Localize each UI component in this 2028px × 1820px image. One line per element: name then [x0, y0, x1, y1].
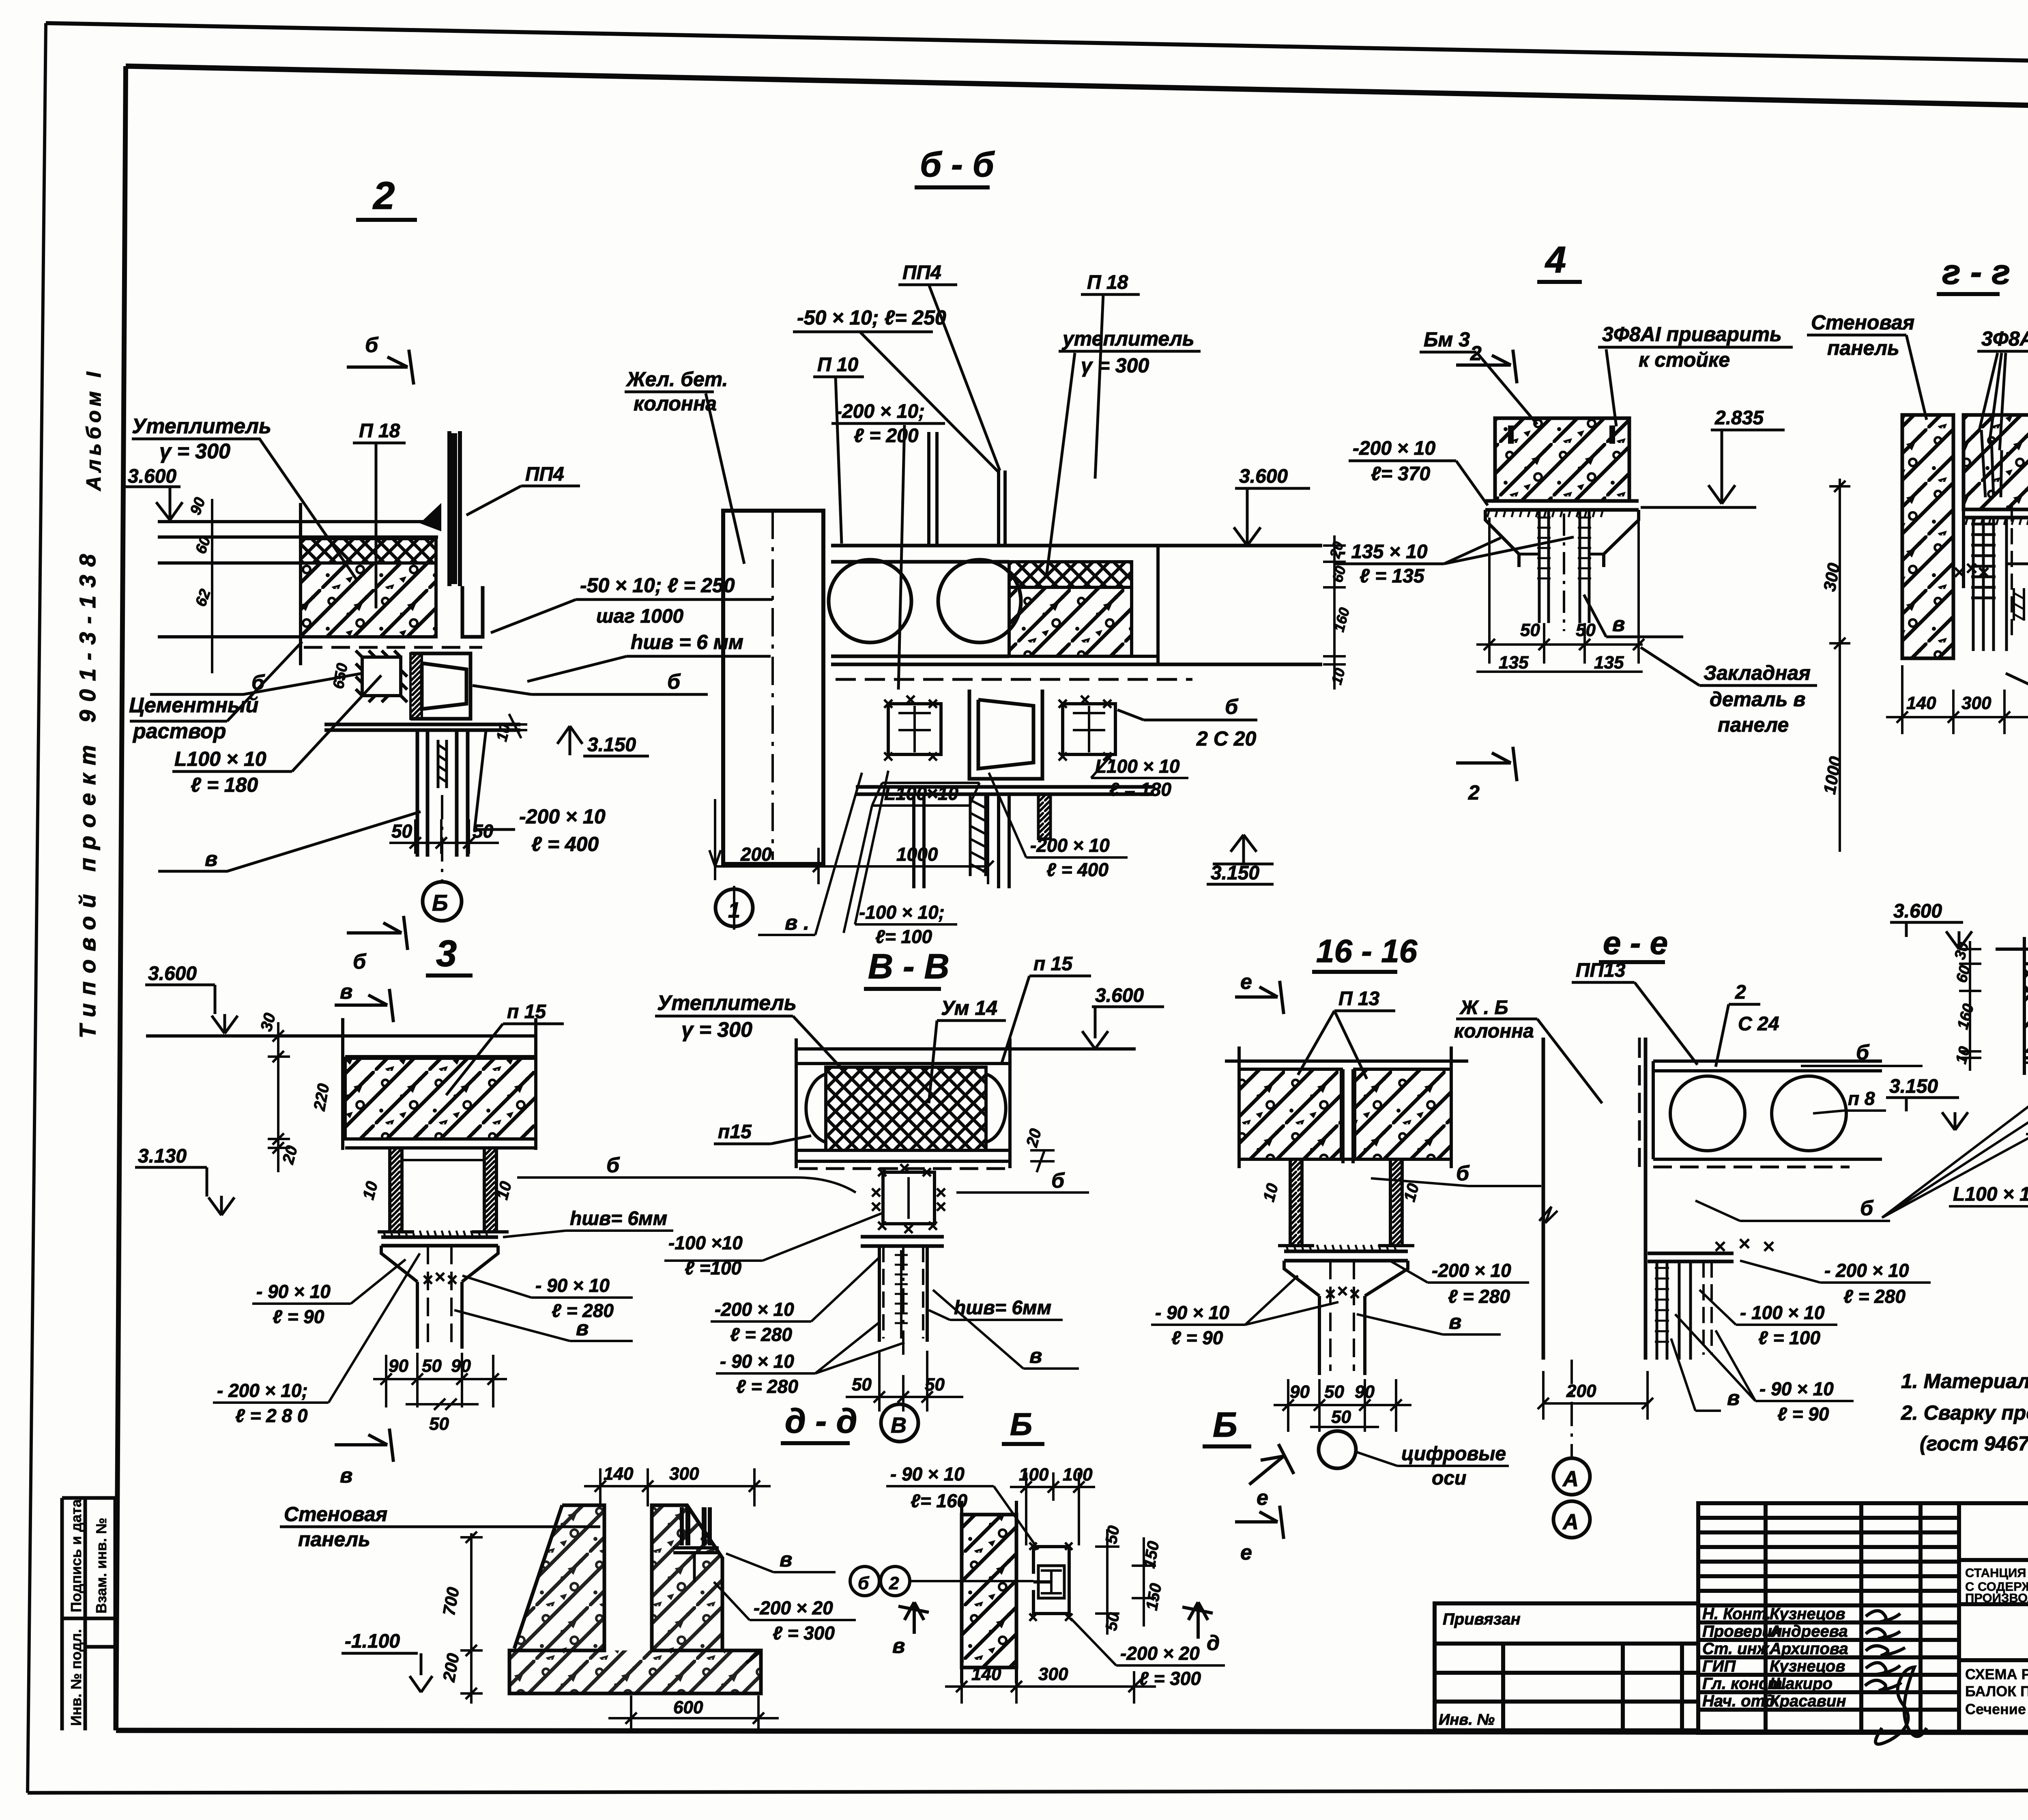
svg-text:П 18: П 18 [359, 420, 400, 442]
svg-text:Б: Б [432, 890, 448, 915]
insulation + concrete right part [1009, 562, 1132, 587]
svg-text:90: 90 [389, 1356, 408, 1376]
svg-text:- 100 × 10: - 100 × 10 [1740, 1302, 1825, 1323]
bracket below: hatched posts + slope [1971, 518, 2028, 651]
svg-text:-200 × 20: -200 × 20 [1120, 1643, 1200, 1664]
bracket wing [420, 503, 441, 531]
left dim chain [1959, 941, 1981, 1071]
svg-text:ℓ = 300: ℓ = 300 [773, 1622, 835, 1644]
vertical plates through slab [929, 432, 1005, 546]
svg-text:Привязан: Привязан [1443, 1610, 1521, 1628]
section marker б (top) [347, 350, 414, 385]
svg-text:-100 × 10;: -100 × 10; [859, 902, 945, 923]
base plate [324, 724, 520, 730]
svg-text:п 15: п 15 [507, 1001, 546, 1023]
svg-text:Архипова: Архипова [1769, 1640, 1848, 1658]
svg-text:ℓ = 280: ℓ = 280 [736, 1376, 798, 1397]
svg-text:б: б [1860, 1197, 1874, 1220]
svg-text:оси: оси [1432, 1468, 1466, 1489]
channel section [378, 1148, 509, 1232]
svg-text:цифровые: цифровые [1401, 1443, 1506, 1465]
section marker в (bottom) [335, 1429, 393, 1462]
svg-text:- 200 × 10;: - 200 × 10; [217, 1380, 308, 1401]
svg-text:в .: в . [785, 911, 809, 935]
svg-text:колонна: колонна [1454, 1021, 1534, 1042]
svg-text:L100 × 10: L100 × 10 [174, 748, 266, 770]
svg-text:в: в [340, 980, 352, 1003]
dimension ticks on left chain 90/60/62 [203, 499, 221, 673]
svg-text:к стойке: к стойке [1639, 348, 1730, 371]
svg-text:п 15: п 15 [1033, 953, 1073, 975]
svg-text:Стеновая: Стеновая [1811, 311, 1914, 334]
svg-text:е: е [1257, 1486, 1268, 1510]
svg-text:ℓ = 180: ℓ = 180 [191, 774, 258, 796]
svg-text:ПРОИЗВОДИТЕЛЬНОСТЬЮ 40 ТЫС. М: ПРОИЗВОДИТЕЛЬНОСТЬЮ 40 ТЫС. М3/СУТКИ. [1965, 1591, 2028, 1605]
svg-text:-200 × 10: -200 × 10 [1353, 438, 1435, 459]
svg-text:3.600: 3.600 [1095, 985, 1144, 1006]
svg-text:в: в [340, 1464, 352, 1487]
left dim chain 30/220/20 [268, 1022, 290, 1172]
svg-text:Кузнецов: Кузнецов [1770, 1605, 1845, 1623]
svg-text:Н. Конт.: Н. Конт. [1702, 1605, 1771, 1623]
svg-text:-50 × 10; ℓ = 250: -50 × 10; ℓ = 250 [580, 574, 735, 597]
svg-text:300: 300 [669, 1464, 699, 1484]
svg-text:4: 4 [1545, 239, 1566, 281]
svg-text:50: 50 [422, 1356, 442, 1376]
channel [1278, 1159, 1414, 1246]
svg-text:панель: панель [1827, 337, 1899, 359]
svg-text:б: б [858, 1573, 870, 1593]
base plate [861, 1237, 944, 1246]
bottom slab line [345, 1146, 536, 1150]
plate + posts [1648, 1253, 1734, 1261]
svg-text:ℓ = 90: ℓ = 90 [1171, 1327, 1223, 1348]
svg-text:Утеплитель: Утеплитель [657, 991, 797, 1015]
svg-text:панель: панель [298, 1528, 370, 1551]
channel section [410, 653, 470, 719]
hollow-core slab [829, 546, 1322, 664]
svg-text:300: 300 [1038, 1664, 1068, 1684]
svg-text:ℓ = 90: ℓ = 90 [273, 1306, 324, 1327]
wall panel (left) [1902, 415, 1953, 658]
svg-text:100: 100 [1063, 1465, 1093, 1485]
axis circle В [881, 1404, 918, 1442]
svg-text:п 8: п 8 [1848, 1088, 1875, 1109]
embedded bars in block [1508, 425, 1514, 444]
svg-text:СТАНЦИЯ ОБЕЗЖЕЛЕЗИВАНИЯ ВО: СТАНЦИЯ ОБЕЗЖЕЛЕЗИВАНИЯ ВОДЫ ПОДЗЕМНЫХ И… [1965, 1566, 2028, 1580]
svg-text:б: б [667, 670, 681, 694]
svg-text:Закладная: Закладная [1704, 662, 1811, 684]
svg-text:-200 × 10;: -200 × 10; [836, 401, 925, 422]
svg-text:3.150: 3.150 [1211, 862, 1259, 884]
svg-text:200: 200 [740, 844, 772, 865]
bracket + post [1284, 1261, 1408, 1375]
svg-text:в: в [1029, 1344, 1042, 1368]
svg-text:ℓ = 400: ℓ = 400 [531, 833, 599, 855]
axis circle Б [423, 882, 462, 921]
svg-text:1000: 1000 [896, 844, 938, 865]
svg-text:Стеновая: Стеновая [284, 1503, 387, 1526]
insulation block [826, 1067, 986, 1150]
svg-text:2: 2 [889, 1573, 899, 1593]
marker д (up arrow) [1182, 1602, 1213, 1639]
svg-text:В: В [891, 1413, 907, 1438]
svg-text:2. Сварку производить электр: 2. Сварку производить электродами типа Э… [1901, 1401, 2028, 1424]
svg-text:в: в [892, 1634, 905, 1658]
svg-text:деталь в: деталь в [1710, 688, 1805, 711]
weld ticks under plate [1487, 510, 1603, 517]
svg-text:б: б [365, 333, 379, 357]
svg-text:- 90 × 10: - 90 × 10 [256, 1281, 331, 1302]
svg-text:50: 50 [429, 1414, 449, 1434]
svg-text:б: б [1051, 1169, 1065, 1193]
svg-text:-200 × 10: -200 × 10 [715, 1299, 794, 1320]
svg-text:ℓ = 300: ℓ = 300 [1139, 1668, 1201, 1689]
svg-text:е - е: е - е [1603, 925, 1668, 961]
column stub in socket [673, 1507, 719, 1582]
signature table grid [1698, 1503, 2028, 1733]
svg-text:панеле: панеле [1718, 713, 1789, 736]
right rotated dims 50 150 150 50 [1095, 1529, 1156, 1635]
svg-text:б: б [1225, 695, 1239, 719]
svg-text:50: 50 [852, 1375, 872, 1395]
base plate [381, 1237, 498, 1246]
svg-text:γ = 300: γ = 300 [1081, 354, 1149, 377]
svg-text:П 18: П 18 [1087, 272, 1128, 293]
svg-text:(гост 9467-75) hшв = 6 мм .: (гост 9467-75) hшв = 6 мм . [1920, 1432, 2028, 1455]
svg-text:γ = 300: γ = 300 [159, 440, 230, 463]
svg-text:утеплитель: утеплитель [1061, 327, 1194, 350]
station description [1965, 1566, 2028, 1605]
svg-text:-50 × 10; ℓ= 250: -50 × 10; ℓ= 250 [797, 306, 946, 329]
hollow core slab right [1653, 1061, 1882, 1167]
anchor posts below [417, 730, 468, 857]
beam block (right) [1964, 415, 2028, 509]
svg-text:Сечение 16-16. Узлы 2 ÷ 5.: Сечение 16-16. Узлы 2 ÷ 5. [1965, 1701, 2028, 1717]
svg-text:3.150: 3.150 [587, 734, 636, 756]
steel assembly [1029, 1543, 1072, 1621]
embedded plate square with weld ticks [356, 651, 407, 702]
svg-text:Инв. №: Инв. № [1439, 1711, 1495, 1728]
svg-text:ГИП: ГИП [1702, 1657, 1736, 1675]
svg-text:2: 2 [372, 174, 395, 217]
svg-text:2: 2 [1468, 781, 1480, 804]
svg-text:ℓ = 280: ℓ = 280 [1843, 1286, 1906, 1307]
svg-text:е: е [1240, 1541, 1252, 1564]
svg-text:-1.100: -1.100 [345, 1631, 400, 1652]
svg-text:hшв = 6 мм: hшв = 6 мм [631, 631, 743, 653]
circles б 2 [850, 1566, 879, 1596]
svg-text:ℓ = 135: ℓ = 135 [1360, 565, 1425, 587]
svg-text:ПП13: ПП13 [1576, 960, 1626, 981]
svg-text:Цементный: Цементный [129, 694, 258, 717]
svg-text:Утеплитель: Утеплитель [132, 415, 271, 438]
base plate [1485, 501, 1639, 510]
svg-text:в: в [576, 1317, 589, 1340]
svg-text:б: б [606, 1154, 620, 1177]
dashed line under slab [799, 1167, 1006, 1170]
base plate [1284, 1251, 1408, 1261]
svg-text:3.600: 3.600 [1893, 900, 1942, 922]
svg-text:ℓ = 180: ℓ = 180 [1109, 779, 1171, 800]
svg-text:в: в [1449, 1310, 1461, 1334]
svg-text:Б: Б [1010, 1406, 1032, 1442]
axis circles А А [1553, 1458, 1590, 1495]
svg-text:50: 50 [1520, 620, 1540, 640]
svg-text:140: 140 [604, 1464, 634, 1484]
svg-text:- 90 × 10: - 90 × 10 [1155, 1302, 1229, 1323]
svg-text:3Ф8АI приварить: 3Ф8АI приварить [1602, 323, 1782, 346]
concrete slab [345, 1058, 536, 1139]
svg-text:2: 2 [1470, 342, 1482, 365]
svg-text:Бм 3: Бм 3 [1424, 328, 1470, 351]
column verticals [1539, 1038, 1646, 1360]
svg-text:г - г: г - г [1942, 253, 2010, 292]
svg-text:hшв= 6мм: hшв= 6мм [954, 1297, 1051, 1319]
svg-text:в: в [1727, 1386, 1740, 1410]
rebar spikes in beam [1981, 430, 2002, 497]
svg-text:hшв= 6мм: hшв= 6мм [570, 1208, 667, 1229]
x welds near wall [1955, 564, 1988, 577]
svg-text:ℓ = 400: ℓ = 400 [1046, 859, 1109, 880]
concrete panel layer [301, 563, 436, 637]
svg-text:3.600: 3.600 [148, 963, 197, 984]
left vertical edge of slab [299, 503, 302, 665]
svg-text:50: 50 [473, 821, 494, 842]
svg-text:L100 × 10: L100 × 10 [1953, 1184, 2028, 1205]
svg-text:А: А [1562, 1510, 1579, 1534]
svg-text:- 90 × 10: - 90 × 10 [535, 1275, 610, 1296]
svg-text:д - д: д - д [785, 1402, 857, 1440]
svg-text:50: 50 [391, 821, 412, 842]
plate under beam [1964, 509, 2028, 518]
svg-text:-200 × 10: -200 × 10 [1030, 835, 1110, 856]
middle channel [969, 690, 1042, 779]
svg-text:П 13: П 13 [1338, 988, 1380, 1010]
slab top lines [1225, 1046, 1468, 1168]
svg-text:50: 50 [1102, 1611, 1123, 1632]
svg-text:-200 × 20: -200 × 20 [754, 1597, 833, 1618]
svg-text:3Ф8АI: 3Ф8АI [1981, 327, 2028, 350]
svg-text:L100×10: L100×10 [884, 783, 958, 804]
svg-text:Ст. инж.: Ст. инж. [1702, 1640, 1773, 1658]
svg-text:ℓ= 100: ℓ= 100 [875, 926, 932, 947]
bracket trapezoid + post [381, 1246, 498, 1349]
svg-text:3.130: 3.130 [138, 1145, 187, 1167]
marker в (up arrow) [898, 1602, 929, 1634]
svg-text:ПП4: ПП4 [902, 262, 941, 284]
svg-text:-200 × 10: -200 × 10 [1432, 1260, 1511, 1281]
svg-text:ℓ = 280: ℓ = 280 [730, 1324, 792, 1345]
svg-text:Кузнецов: Кузнецов [1770, 1657, 1845, 1675]
wall panel [962, 1515, 1016, 1667]
section marker е (up-right arrow) [1249, 1444, 1294, 1485]
signature rows text [1702, 1605, 1848, 1710]
svg-text:140: 140 [1906, 693, 1936, 713]
two concrete blocks [1239, 1069, 1341, 1159]
svg-text:100: 100 [1019, 1465, 1049, 1485]
slab top lines [146, 1018, 536, 1150]
svg-text:2 С 20: 2 С 20 [1196, 727, 1257, 750]
svg-text:ℓ = 280: ℓ = 280 [1448, 1286, 1510, 1307]
section marker 2 (bottom) [1456, 747, 1517, 781]
base plate + anchors [856, 787, 1154, 794]
dashed anchor line [2011, 505, 2013, 641]
svg-text:БАЛОК ПЕРЕКРЫТИЯ НА ОТМ. 3.600: БАЛОК ПЕРЕКРЫТИЯ НА ОТМ. 3.600. [1965, 1683, 2028, 1700]
signatures squiggles [1865, 1611, 1927, 1744]
svg-text:50: 50 [1102, 1524, 1123, 1545]
svg-text:е: е [1240, 970, 1252, 994]
svg-text:п15: п15 [718, 1121, 752, 1143]
T steel in gap [1330, 1069, 1367, 1163]
svg-text:ПП4: ПП4 [525, 464, 564, 485]
slab with insulation [796, 1038, 1136, 1168]
svg-text:- 200 × 10: - 200 × 10 [1824, 1260, 1909, 1281]
svg-text:б: б [353, 950, 367, 973]
svg-text:Взам. инв. №: Взам. инв. № [93, 1518, 110, 1614]
right embedded plate with x welds [1059, 696, 1115, 761]
б fan leaders [1882, 1075, 2028, 1218]
foundation mass [509, 1505, 761, 1693]
svg-text:в: в [1612, 612, 1625, 636]
hollow core arcs at ends [806, 1074, 826, 1142]
dashed line under slab [2026, 1061, 2028, 1064]
svg-text:С 24: С 24 [1738, 1013, 1779, 1035]
section marker е (bottom) [1235, 1506, 1284, 1539]
svg-text:ℓ = 100: ℓ = 100 [1758, 1327, 1820, 1348]
slab top screed lines [158, 522, 438, 637]
svg-text:В - В: В - В [868, 947, 950, 986]
svg-text:3.600: 3.600 [128, 466, 176, 487]
svg-text:Андреева: Андреева [1769, 1622, 1848, 1640]
anchor bolts with thread [1537, 510, 1591, 631]
svg-text:Инв. № подл.: Инв. № подл. [68, 1629, 84, 1726]
svg-text:- 135 × 10: - 135 × 10 [1339, 541, 1428, 563]
sheet description [1965, 1666, 2028, 1717]
svg-text:шаг 1000: шаг 1000 [596, 606, 683, 627]
svg-text:600: 600 [673, 1698, 703, 1717]
post with thread [879, 1246, 927, 1342]
joint seam verticals [1953, 415, 1964, 658]
bottom-left margin table [62, 1498, 115, 1730]
svg-text:Ум 14: Ум 14 [941, 997, 997, 1019]
right dim chain 20/60/160/10 [1323, 535, 1346, 690]
svg-text:135: 135 [1594, 653, 1624, 673]
svg-text:в: в [205, 847, 217, 871]
svg-text:ℓ = 90: ℓ = 90 [1777, 1403, 1829, 1425]
svg-text:16 - 16: 16 - 16 [1316, 933, 1418, 969]
svg-text:50: 50 [1331, 1407, 1351, 1427]
svg-text:1. Материал металлоконструкц: 1. Материал металлоконструкций - сталь В… [1901, 1370, 2028, 1392]
svg-text:Жел. бет.: Жел. бет. [625, 368, 728, 391]
svg-text:ℓ= 160: ℓ= 160 [911, 1490, 968, 1511]
svg-text:д: д [1207, 1631, 1220, 1655]
column upper shaft (dark) [420, 431, 483, 637]
svg-text:-100 ×10: -100 ×10 [668, 1232, 743, 1253]
axis circle + цифровые оси [1319, 1431, 1356, 1468]
svg-text:А: А [1562, 1467, 1579, 1491]
svg-text:колонна: колонна [634, 392, 717, 415]
svg-text:ℓ= 370: ℓ= 370 [1371, 463, 1431, 485]
left dim chain 300/1000 [1829, 479, 1850, 852]
dashed bottom line of slab [304, 646, 482, 649]
svg-text:Ж . Б: Ж . Б [1459, 997, 1508, 1019]
svg-text:γ = 300: γ = 300 [681, 1018, 752, 1042]
svg-text:- 90 × 10: - 90 × 10 [1759, 1378, 1834, 1399]
foundation hatch left part [514, 1505, 604, 1650]
svg-text:50: 50 [1324, 1382, 1344, 1402]
svg-text:раствор: раствор [132, 720, 226, 743]
svg-text:Подпись и дата: Подпись и дата [68, 1499, 84, 1612]
svg-text:ℓ = 200: ℓ = 200 [854, 425, 919, 447]
axis circle 1 [715, 889, 753, 926]
svg-text:2.835: 2.835 [1714, 407, 1764, 429]
insulation layer (cross hatch) [301, 539, 436, 563]
section marker б (bottom) [347, 916, 408, 950]
svg-text:- 90 × 10: - 90 × 10 [720, 1351, 794, 1372]
left margin stamp text: Типовой проект 901-3-138 [75, 368, 105, 1038]
weld x row [1716, 1239, 1773, 1251]
dim 700 / 200 [460, 1532, 483, 1704]
svg-text:Красавин: Красавин [1770, 1692, 1846, 1710]
svg-text:в: в [780, 1548, 792, 1571]
svg-text:3.600: 3.600 [1239, 466, 1288, 487]
svg-text:П 10: П 10 [817, 354, 859, 376]
svg-text:200: 200 [1566, 1381, 1596, 1401]
svg-text:Типовой проект 901-3-138: Типовой проект 901-3-138 [75, 546, 100, 1038]
bracket trapezoid [1485, 510, 1639, 567]
svg-text:3: 3 [436, 933, 457, 974]
svg-text:Б: Б [1213, 1405, 1237, 1444]
column rectangle [723, 511, 823, 864]
svg-text:2: 2 [1735, 982, 1746, 1003]
svg-text:Нач. отд: Нач. отд [1702, 1692, 1775, 1710]
svg-text:Альбом I: Альбом I [82, 368, 105, 492]
svg-text:Шакиро: Шакиро [1770, 1675, 1833, 1693]
svg-text:б: б [1456, 1162, 1470, 1185]
svg-text:135: 135 [1499, 653, 1529, 673]
svg-text:- 90 × 10: - 90 × 10 [890, 1463, 965, 1485]
weld plate square [872, 1164, 945, 1233]
beam concrete block [1495, 418, 1629, 501]
slab layers [1996, 937, 2028, 1075]
svg-text:-200 × 10: -200 × 10 [519, 805, 606, 828]
svg-text:СХЕМА РАСПОЛОЖЕНИЯ ПЛИТ: СХЕМА РАСПОЛОЖЕНИЯ ПЛИТ И [1965, 1666, 2028, 1682]
svg-text:б - б: б - б [920, 145, 995, 184]
svg-text:3.150: 3.150 [1889, 1076, 1938, 1097]
привязан table [1435, 1603, 1698, 1730]
left embedded plate with x welds [884, 696, 941, 761]
svg-text:140: 140 [971, 1664, 1001, 1684]
dashed line under slab [836, 678, 1192, 681]
svg-text:300: 300 [1961, 693, 1991, 713]
svg-text:ℓ = 2 8 0: ℓ = 2 8 0 [235, 1405, 308, 1426]
svg-text:б: б [1856, 1041, 1870, 1064]
